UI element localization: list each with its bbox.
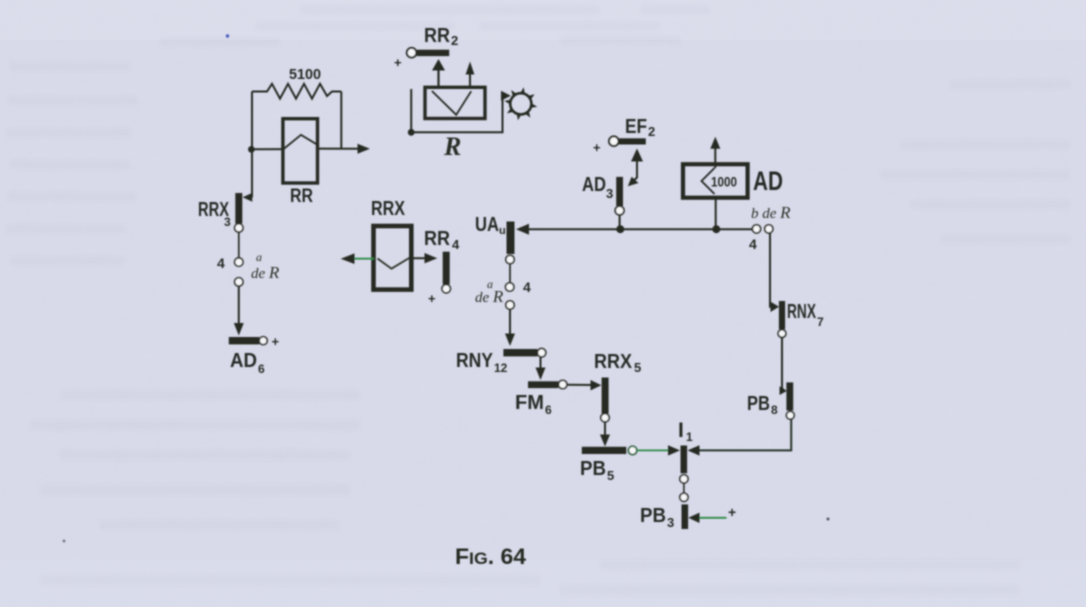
- svg-text:RR: RR: [424, 228, 450, 250]
- label RNY12: [456, 350, 508, 375]
- svg-text:UA: UA: [475, 214, 499, 236]
- wire AD3 to bus: [619, 215, 621, 229]
- label PB5: [580, 458, 614, 483]
- arrow up right from box: [466, 62, 475, 88]
- svg-text:8: 8: [771, 403, 778, 417]
- svg-text:PB: PB: [580, 458, 606, 480]
- wire FM6 to RRX5 with arrow: [567, 380, 601, 390]
- svg-text:12: 12: [494, 361, 508, 375]
- svg-text:5: 5: [607, 468, 614, 483]
- label RNX7: [787, 301, 824, 329]
- svg-text:RRX: RRX: [371, 198, 406, 220]
- svg-text:RRX: RRX: [594, 351, 633, 373]
- svg-text:3: 3: [224, 215, 231, 229]
- script label R: [443, 132, 461, 161]
- svg-text:PB: PB: [640, 505, 666, 527]
- svg-text:4: 4: [523, 279, 531, 295]
- plus sign RR4: [428, 291, 436, 306]
- terminal circle gap lower UA: [506, 301, 514, 309]
- label FM6: [515, 392, 552, 417]
- plus sign EF2: [593, 140, 601, 155]
- svg-text:3: 3: [667, 515, 674, 530]
- label RR: [290, 186, 313, 207]
- svg-text:FIG. 64: FIG. 64: [455, 544, 527, 569]
- contact I1: [681, 446, 688, 474]
- pin label 4: [217, 255, 225, 271]
- svg-text:de R: de R: [251, 263, 280, 282]
- svg-text:+: +: [593, 140, 601, 155]
- svg-text:PB: PB: [747, 393, 770, 415]
- plus sign AD6: [272, 334, 280, 349]
- contact RRX5: [602, 378, 609, 414]
- svg-text:+: +: [428, 291, 436, 306]
- svg-text:RR: RR: [290, 186, 313, 207]
- terminal circle RNX7: [778, 330, 786, 338]
- terminal circle RRX5: [601, 414, 609, 422]
- terminal circle PB8: [786, 411, 794, 419]
- svg-text:2: 2: [648, 124, 655, 139]
- pin 4 terminal circle: [235, 258, 243, 266]
- wire to RNY12 with arrow: [505, 309, 515, 346]
- label RR2: [424, 25, 458, 48]
- plus sign PB3: [728, 504, 736, 520]
- dust speck dark: [827, 518, 830, 521]
- svg-text:RNX: RNX: [787, 301, 816, 323]
- contact RR4: [443, 252, 450, 285]
- contact UAu: [507, 222, 515, 255]
- wire from PB8 to I1 with arrow: [688, 420, 792, 456]
- svg-text:AD: AD: [582, 174, 606, 196]
- terminal circle RR4: [442, 285, 450, 293]
- label PB8: [747, 393, 778, 417]
- contact RRX3: [235, 193, 252, 224]
- arrow up from AD: [710, 137, 720, 168]
- contact PB3: [682, 504, 689, 529]
- label UAu: [475, 214, 506, 237]
- svg-text:AD: AD: [753, 166, 783, 196]
- terminal circle FM6: [559, 380, 567, 388]
- svg-text:6: 6: [545, 403, 552, 417]
- svg-text:5100: 5100: [289, 66, 321, 83]
- terminal circle b de R left: [752, 225, 760, 233]
- node junction left of RR: [248, 146, 255, 153]
- resistor 5100: [252, 84, 341, 99]
- relay coil RR: [283, 119, 318, 183]
- svg-text:4: 4: [217, 255, 225, 271]
- wire between terminals: [683, 483, 685, 493]
- svg-text:+: +: [394, 55, 402, 70]
- wire left branch of RR loop: [251, 92, 253, 198]
- node junction bottom left of R unit: [408, 129, 415, 136]
- contact bar PB5: [582, 447, 627, 454]
- terminal circle lower gap RRX3: [235, 278, 243, 286]
- terminal circle RNY12: [537, 349, 545, 357]
- wire right of RRX with arrow to RR4: [411, 253, 437, 263]
- svg-text:6: 6: [258, 362, 265, 376]
- wire b de R to RNX7 with arrow: [770, 233, 779, 312]
- terminal circle under UA: [506, 255, 514, 263]
- node a de R label: [251, 250, 280, 282]
- arrow up left from box: [432, 59, 445, 87]
- terminal circle under RRX3: [235, 224, 243, 232]
- label RR4: [424, 228, 460, 252]
- terminal circle b de R right: [765, 225, 773, 233]
- svg-text:RNY: RNY: [456, 350, 494, 372]
- wire bottom loop to drive wheel: [411, 91, 511, 133]
- svg-text:RR: RR: [424, 25, 450, 47]
- svg-text:AD: AD: [230, 350, 257, 372]
- svg-text:5: 5: [634, 360, 641, 375]
- svg-text:I: I: [678, 419, 684, 442]
- plus sign RR2: [394, 55, 402, 70]
- wire green plus into PB3: [688, 513, 726, 523]
- contact PB8: [786, 382, 793, 410]
- relay coil RRX: [374, 226, 412, 290]
- dust speck blue: [226, 34, 229, 37]
- wire to AD6 with arrow: [234, 286, 244, 335]
- svg-text:4: 4: [749, 236, 757, 252]
- svg-text:EF: EF: [625, 116, 647, 138]
- wire to PB5 with arrow: [600, 422, 610, 447]
- contact bar AD6: [229, 337, 259, 344]
- node junction AD bus: [712, 225, 720, 233]
- node b de R label: [751, 203, 791, 222]
- label RRX3: [198, 199, 231, 229]
- svg-text:u: u: [499, 225, 506, 237]
- svg-text:a: a: [256, 250, 262, 264]
- label RRX: [371, 198, 406, 220]
- register unit box of R: [425, 87, 485, 118]
- wire right branch of RR loop: [340, 92, 342, 149]
- node a de R label UA: [475, 277, 504, 306]
- value label 5100: [289, 66, 321, 83]
- label PB3: [640, 505, 674, 530]
- contact RR2: [407, 48, 449, 58]
- contact bar RNY12: [503, 349, 537, 356]
- label AD: [753, 166, 783, 196]
- wire green PB5 to I1 with arrow: [637, 445, 680, 455]
- value label 1000: [711, 175, 737, 190]
- relay counter AD: [683, 164, 748, 198]
- dust speck small: [63, 540, 66, 543]
- label AD6: [230, 350, 265, 376]
- wire RNX7 to PB8: [780, 338, 787, 396]
- svg-text:3: 3: [606, 186, 613, 201]
- wire between UA terminals: [509, 264, 511, 283]
- wire green left of RRX with arrow: [341, 253, 374, 264]
- svg-text:de R: de R: [475, 287, 504, 306]
- terminal circle gap upper UA: [506, 283, 514, 291]
- terminal circle AD6: [259, 337, 267, 345]
- bent arrow AD3 to EF2: [628, 149, 643, 187]
- svg-text:R: R: [443, 132, 461, 161]
- wire between RRX3 terminals: [238, 232, 240, 258]
- svg-text:1: 1: [686, 430, 693, 444]
- svg-text:7: 7: [817, 315, 824, 329]
- caption Fig 64: [455, 544, 527, 569]
- contact bar FM6: [528, 381, 558, 388]
- svg-text:2: 2: [451, 33, 458, 48]
- bus wire with arrow into UA: [516, 224, 752, 235]
- wire AD to bus: [715, 198, 717, 230]
- label I1: [678, 419, 693, 444]
- wire to FM6 with arrow: [536, 357, 546, 380]
- svg-text:FM: FM: [515, 392, 544, 414]
- terminal circle I1 lower b: [680, 493, 688, 501]
- pin label 4 b de R: [749, 236, 757, 252]
- label RRX5: [594, 351, 641, 375]
- svg-text:+: +: [272, 334, 280, 349]
- svg-text:1000: 1000: [711, 175, 737, 190]
- wire left side of R unit: [410, 89, 412, 132]
- drive wheel of R: [504, 87, 537, 120]
- node junction AD3 bus: [616, 225, 624, 233]
- contact EF2: [609, 136, 646, 146]
- contact RNX7: [779, 301, 785, 329]
- terminal circle I1 lower a: [680, 475, 688, 483]
- terminal circle AD3: [615, 206, 624, 215]
- svg-text:b de R: b de R: [751, 203, 791, 222]
- svg-text:+: +: [728, 504, 736, 520]
- label AD3: [582, 174, 613, 201]
- terminal circle PB5: [628, 446, 636, 454]
- pin label 4 UA: [523, 279, 531, 295]
- wire horizontal through RR with arrow: [251, 144, 370, 154]
- svg-text:4: 4: [452, 237, 460, 252]
- label EF2: [625, 116, 655, 139]
- contact AD3: [616, 177, 623, 206]
